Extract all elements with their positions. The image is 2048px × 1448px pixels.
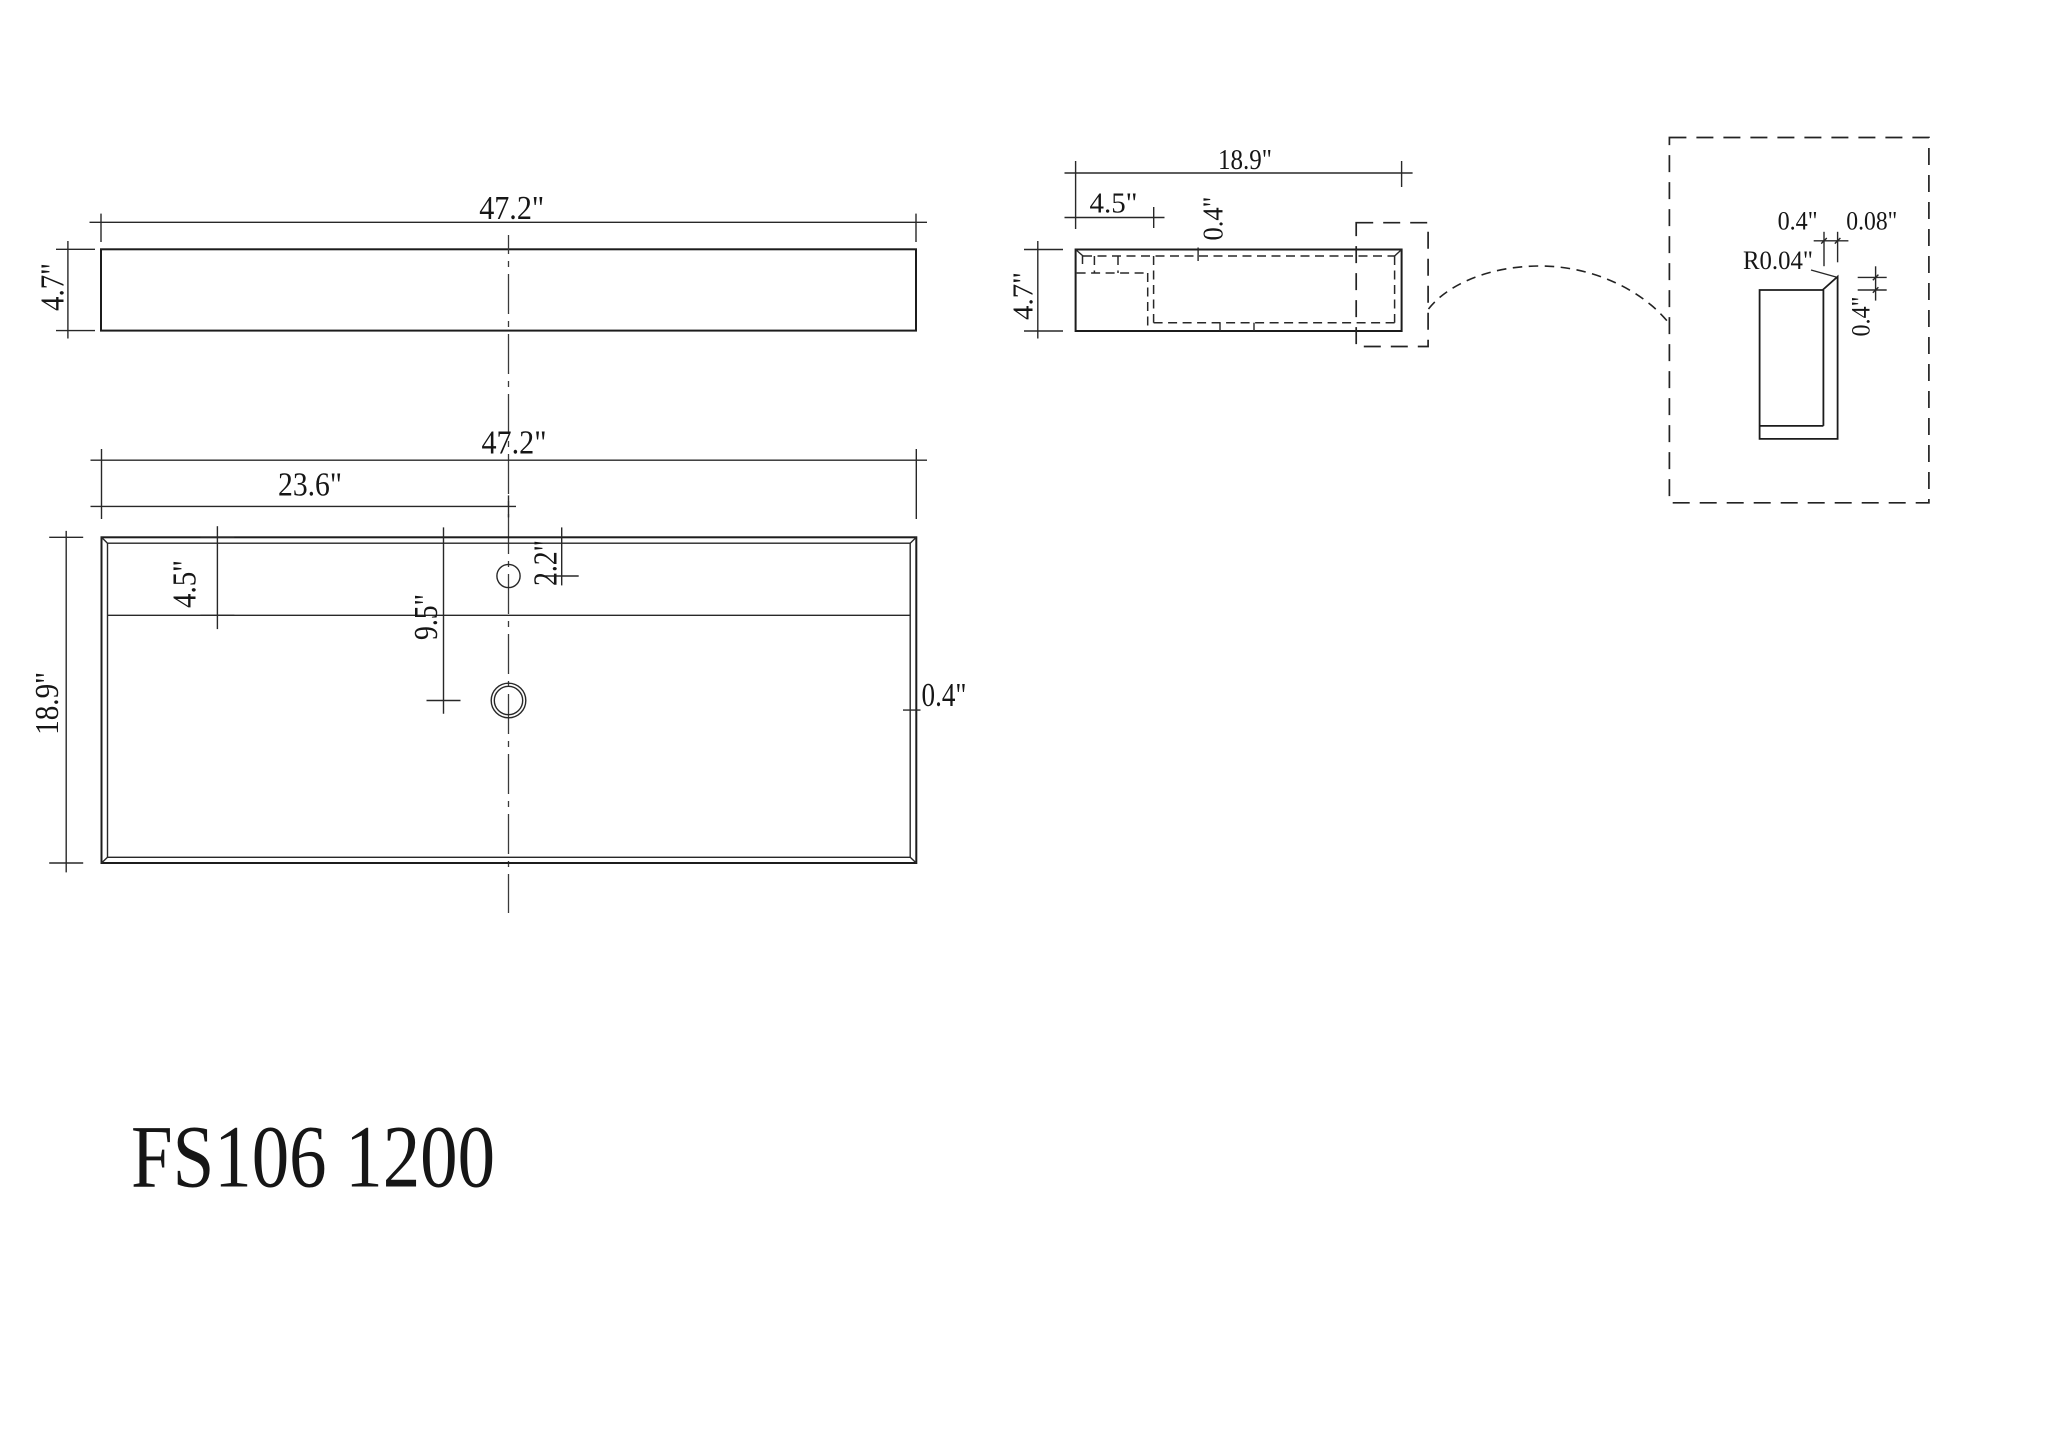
side hidden basin left (1153, 256, 1155, 323)
detail dim top line (1814, 240, 1849, 242)
dimension 4.5 side dim line (1065, 217, 1165, 219)
dimension 18.9 side left ext (1075, 161, 1077, 229)
detail dim top oblique tick 2 (1835, 238, 1841, 244)
dimension 2.2 dim line (561, 527, 563, 585)
detail leader R0.04 (1811, 270, 1836, 277)
drain hole inner (494, 686, 522, 714)
side hidden overflow wall (1147, 273, 1149, 331)
dimension 0.4 side tick (1197, 248, 1199, 262)
dimension 9.5 bottom tick (427, 700, 461, 702)
side hidden basin right (1394, 256, 1396, 323)
plan ledge line (108, 614, 911, 616)
dimension 4.5 plan bottom tick (200, 614, 234, 616)
detail dim right ext 1 (1858, 276, 1887, 278)
svg-text:0.4": 0.4" (1847, 297, 1876, 337)
svg-text:47.2": 47.2" (482, 425, 547, 462)
svg-text:9.5": 9.5" (408, 594, 445, 640)
detail section inner bottom (1760, 425, 1824, 427)
detail section inner wall (1822, 290, 1824, 426)
svg-text:47.2": 47.2" (479, 190, 544, 227)
side hidden overflow v3 (1117, 256, 1119, 273)
detail dim right oblique tick 2 (1873, 287, 1879, 293)
plan view outer outline (102, 537, 917, 863)
centerline (508, 235, 510, 913)
svg-text:0.4": 0.4" (922, 677, 967, 714)
svg-text:4.7": 4.7" (1008, 272, 1040, 320)
detail view dashed border (1669, 138, 1929, 503)
detail dim top oblique tick 1 (1821, 238, 1827, 244)
svg-text:R0.04": R0.04" (1743, 246, 1813, 275)
side view outline (1076, 250, 1402, 332)
svg-text:4.5": 4.5" (1090, 188, 1138, 220)
detail dim right line (1875, 266, 1877, 300)
side hidden basin bottom (1154, 322, 1395, 324)
detail section outline (1760, 277, 1838, 439)
dimension 23.6 dim line (91, 505, 517, 507)
dimension 4.7 side bottom tick (1024, 330, 1063, 332)
plan view inner outline (108, 543, 911, 857)
dimension 18.9 plan top tick (49, 536, 83, 538)
plan corner chamfer bottom-left (102, 857, 108, 863)
svg-text:23.6": 23.6" (278, 467, 342, 504)
dimension 4.7 side dim line (1037, 241, 1039, 339)
dimension 0.4 plan tick (903, 709, 921, 711)
svg-text:18.9": 18.9" (1218, 144, 1272, 176)
drain hole outer (491, 683, 526, 718)
dimension 18.9 plan bottom tick (49, 862, 83, 864)
svg-text:2.2": 2.2" (528, 540, 565, 586)
dimension 2.2 tick (545, 575, 579, 577)
svg-text:0.4": 0.4" (1198, 197, 1230, 241)
detail dim right ext 2 (1858, 289, 1887, 291)
plan corner chamfer top-right (910, 537, 916, 543)
dimension 47.2 plan left ext (101, 449, 103, 519)
side drain tick right (1253, 323, 1255, 331)
svg-text:0.08": 0.08" (1846, 207, 1897, 236)
dimension 4.7 front bottom tick (56, 330, 95, 332)
plan corner chamfer top-left (102, 537, 108, 543)
svg-text:4.5": 4.5" (167, 560, 204, 608)
side drain tick left (1219, 323, 1221, 331)
detail dim right oblique tick 1 (1873, 275, 1879, 281)
svg-text:18.9": 18.9" (29, 672, 66, 735)
side chamfer left (1076, 250, 1083, 257)
dimension 47.2 front dim line (90, 221, 928, 223)
faucet hole (497, 564, 520, 587)
dimension 18.9 plan dim line (65, 531, 67, 873)
dimension 18.9 side right ext (1401, 161, 1403, 187)
dimension 4.7 side top tick (1024, 249, 1063, 251)
dimension 9.5 dim line (443, 527, 445, 713)
detail dim top ext 2 (1837, 232, 1839, 262)
dimension 47.2 front right tick (915, 214, 917, 242)
side hidden rim line (1083, 255, 1395, 257)
svg-text:FS106 1200: FS106 1200 (131, 1109, 495, 1207)
dimension 47.2 plan right ext (915, 449, 917, 519)
dimension 4.5 plan top tick (200, 536, 234, 538)
side hidden overflow h (1077, 272, 1148, 274)
side hidden overflow v1 (1082, 256, 1084, 264)
dimension 47.2 front left tick (100, 214, 102, 242)
dimension 23.6 right tick (508, 495, 510, 517)
front view outline (101, 249, 916, 330)
dimension 4.5 plan dim line (216, 526, 218, 629)
dimension 47.2 plan dim line (91, 459, 928, 461)
svg-text:0.4": 0.4" (1778, 207, 1818, 236)
svg-text:4.7": 4.7" (35, 263, 72, 311)
dimension 4.7 front top tick (56, 248, 95, 250)
side chamfer right (1395, 250, 1402, 257)
dimension 4.7 front dim line (67, 241, 69, 339)
detail leader arc (1429, 266, 1669, 322)
dimension 18.9 side dim line (1065, 172, 1413, 174)
dimension 4.5 side right tick (1153, 207, 1155, 228)
side hidden overflow v2 (1093, 256, 1095, 273)
detail area dashed box (1356, 223, 1428, 347)
plan corner chamfer bottom-right (910, 857, 916, 863)
detail dim top ext 1 (1823, 232, 1825, 266)
